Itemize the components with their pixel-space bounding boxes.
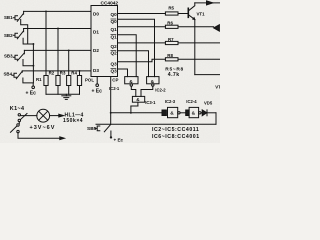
svg-text:&: & [129,79,133,85]
svg-text:CP: CP [112,78,118,83]
switch S power [11,124,20,133]
wire IC2-3 to IC2-4 [180,112,186,114]
ground [62,94,71,99]
gate IC2-1 [125,77,138,84]
node rail/SB2 [32,43,34,45]
connector arrow right (R6) [214,25,220,31]
connector arrow top right [207,1,213,5]
resistor R2 pull-down [56,29,60,95]
svg-text:IC2-2: IC2-2 [155,87,166,92]
svg-text:R4: R4 [71,71,77,76]
svg-text:&: & [170,111,174,117]
svg-text:&: & [192,111,196,117]
wire common button rail [32,44,34,83]
svg-text:VT2: VT2 [215,84,220,89]
wire VT1 emitter rail [194,20,196,75]
gate IC3-1 [132,96,144,102]
pushbutton SB4 [12,71,22,79]
wire Q3bar tap to gate IC2-2 [118,69,128,77]
svg-text:+ Ec: + Ec [92,88,103,94]
wire SB3 bottom contact to rail [23,60,33,66]
node R3/D2 [68,49,70,51]
node IC3-1 out [130,112,132,114]
svg-text:IC2-3: IC2-3 [165,99,176,104]
wire IC2-2 output to IC3-1 [152,84,154,86]
svg-text:SB5: SB5 [87,126,97,132]
pin CP stub / CP net vertical [110,77,112,125]
resistor R1 pull-down [44,11,48,94]
svg-text:SB3: SB3 [4,53,13,58]
resistor R4 pull-down [77,71,81,94]
wire Q3 to R8 [118,59,166,62]
node R4/D3 [79,70,81,72]
gate IC2-2 [147,77,159,84]
svg-text:IC6~IC8:CC4001: IC6~IC8:CC4001 [152,134,200,140]
wire Q0 to R5 [118,13,166,15]
svg-text:IC2-4: IC2-4 [186,99,197,104]
wire VT1 collector to edge [195,2,220,4]
svg-text:Q3: Q3 [111,62,118,67]
node rail/SB3 [32,65,34,67]
node R1/D0 [45,10,47,12]
resistor R5 [165,12,188,15]
pushbutton SB3 [13,50,24,60]
svg-text:CC4042: CC4042 [101,1,119,7]
wire Q2 to R7 [118,42,166,44]
svg-text:VD5: VD5 [204,101,213,106]
svg-text:Q0: Q0 [111,12,118,17]
svg-text:R5: R5 [168,5,174,10]
svg-text:4.7k: 4.7k [168,72,180,78]
terminal +Ec (SB5) [110,136,112,138]
arrow to HL1-4 [59,114,64,117]
gate IC2-4 [186,107,201,117]
junction dots [32,10,131,113]
switch K1-4 [18,114,27,122]
wire K to lamp [21,115,37,117]
wire D3 net from SB4 to pin D3 [22,70,91,72]
wire CP net horizontal [111,112,162,114]
overbars for inverted outputs [111,19,117,69]
terminal +Ec (POL) [96,84,99,87]
svg-text:D1: D1 [93,30,99,35]
svg-text:R3: R3 [60,71,66,76]
svg-text:IC2-1: IC2-1 [109,86,120,91]
wire D1 net from SB2 to pin D1 [24,28,91,30]
pin POL stub [96,77,98,84]
wire SB4 bottom contact to +Ec terminal [23,78,33,86]
wire D0 net from SB1 to pin D0 [24,10,91,12]
transistor VT1 [188,3,195,20]
wire SB2 bottom contact to rail [23,38,33,44]
svg-text:&: & [151,79,155,85]
wire diode to bottom rail [215,113,217,124]
wire Q1bar tap to gate IC2-1 [118,35,137,77]
wire Q0bar tap to gate IC2-1 [118,19,155,76]
wire Q1 to R6 [118,26,166,28]
svg-text:R6: R6 [167,20,173,25]
svg-text:R8: R8 [167,53,173,58]
svg-text:Q2: Q2 [111,44,118,49]
svg-text:R7: R7 [168,37,174,42]
wire D2 net from SB3 to pin D2 [24,49,91,51]
terminal +Ec (buttons) [32,86,35,89]
wire bottom rail [96,123,216,125]
wire IC2-1 output to IC3-1 [130,84,132,86]
svg-text:Q2: Q2 [111,50,118,55]
wire SB1 bottom contact to common rail [21,20,28,45]
IC U1 CC4042 latch body [91,6,118,77]
svg-text:+ Ec: + Ec [114,138,124,143]
resistor R3 pull-down [67,50,71,94]
svg-text:+3V~6V: +3V~6V [30,125,56,131]
diode VD5 [201,110,216,116]
svg-text:Q0: Q0 [111,19,118,24]
svg-text:R2: R2 [49,71,55,76]
pushbutton SB1 [13,11,23,21]
pushbutton SB5 [95,124,111,136]
wire K1-4 to power switch [18,122,20,124]
svg-text:D0: D0 [93,12,99,17]
gate IC2-3 [162,107,180,117]
svg-text:D3: D3 [93,68,99,73]
svg-text:R1: R1 [36,77,42,82]
svg-text:Q1: Q1 [111,27,118,32]
svg-text:150k×4: 150k×4 [63,118,83,124]
svg-text:K1~4: K1~4 [10,106,25,112]
wire battery minus rail with arrow [18,133,60,138]
svg-text:IC2~IC5:CC4011: IC2~IC5:CC4011 [152,127,199,133]
svg-text:SB4: SB4 [4,71,13,76]
svg-text:SB2: SB2 [4,33,13,38]
wire lamp to HL arrow [50,115,59,117]
svg-text:Q3: Q3 [111,68,118,73]
svg-text:POL: POL [85,78,94,83]
svg-text:VT1: VT1 [197,11,206,16]
node R2/D1 [57,28,59,30]
svg-text:Q1: Q1 [111,34,118,39]
node CP junction [110,112,112,114]
svg-text:+ Ec: + Ec [26,91,37,97]
resistor R6 [165,25,213,28]
lamp HL [37,109,50,122]
wire VT emitter to edge [195,74,220,76]
svg-text:IC3-1: IC3-1 [145,100,156,105]
svg-text:SB1: SB1 [4,15,13,20]
wire resistor common rail [46,93,80,95]
pushbutton SB2 [13,29,23,39]
svg-text:D2: D2 [93,48,99,53]
resistor R8 [165,58,220,61]
wire IC3-1 output to CP net [137,102,139,106]
resistor R7 [165,41,220,44]
wire Q2bar tap to gate IC2-2 [118,51,149,77]
